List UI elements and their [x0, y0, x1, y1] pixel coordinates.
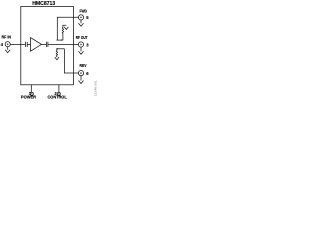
svg-text:FWD: FWD — [80, 8, 87, 13]
coupler reverse coupled line — [56, 48, 64, 50]
resistor R1 termination — [62, 25, 66, 40]
capacitor C2 — [46, 42, 48, 47]
resistor R2 termination — [56, 49, 57, 57]
svg-text:POWER: POWER — [21, 95, 36, 100]
svg-text:15246-001: 15246-001 — [94, 80, 98, 97]
wire amplifier to C2 — [42, 43, 47, 45]
wire C1 to amplifier — [27, 43, 30, 45]
wire pin 1 stub — [30, 85, 32, 92]
pin 4 RF IN connector — [5, 42, 10, 47]
svg-text:RF IN: RF IN — [2, 34, 12, 39]
wire RF IN pin to ground — [7, 47, 9, 50]
svg-text:HMC8713: HMC8713 — [32, 1, 55, 7]
wire FWD pin to ground — [80, 20, 82, 23]
wire pin 2 stub — [58, 85, 60, 92]
ground — [5, 50, 10, 53]
coupler forward coupled line — [56, 39, 63, 41]
pin 5 FWD connector — [78, 15, 83, 20]
ground — [79, 81, 84, 84]
pin 2 CONTROL connector — [57, 92, 60, 95]
wire REV pin to ground — [80, 76, 82, 81]
svg-text:REV: REV — [80, 63, 87, 68]
wire REV coupled port drop — [64, 49, 78, 73]
IC outline box U1 — [21, 6, 74, 84]
capacitor C1 — [25, 42, 27, 47]
svg-text:RF OUT: RF OUT — [76, 35, 88, 40]
ground — [64, 27, 68, 30]
pin 3 RF OUT connector — [78, 42, 83, 47]
wire RF OUT pin to ground — [80, 47, 82, 51]
pin 1 POWER connector — [30, 92, 33, 95]
svg-text:CONTROL: CONTROL — [48, 95, 68, 100]
wire C2 to RF OUT pin — [48, 43, 79, 45]
ground — [55, 57, 59, 60]
ground — [79, 23, 84, 26]
ground — [79, 51, 84, 54]
wire FWD coupled port riser — [57, 17, 78, 40]
op-amp A1 amplifier triangle — [31, 38, 42, 52]
wire RF IN to C1 — [10, 43, 25, 45]
pin 6 REV connector — [78, 71, 83, 76]
